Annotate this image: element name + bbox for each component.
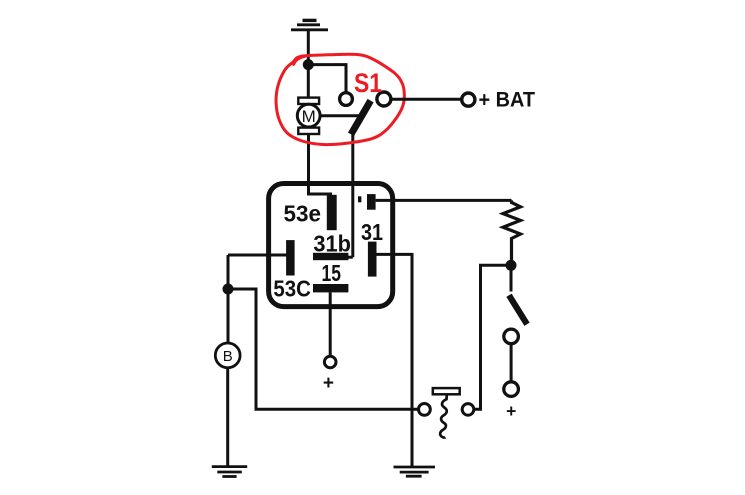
wire B to ground (226, 368, 229, 466)
svg-text:15: 15 (322, 260, 342, 286)
switch S1 left contact (340, 93, 353, 106)
svg-text:53e: 53e (284, 201, 322, 227)
svg-text:B: B (223, 348, 233, 365)
svg-text:31: 31 (361, 219, 383, 245)
switch S2 contact (504, 329, 519, 344)
pin 53e (327, 195, 337, 230)
wire S1 to BAT (391, 98, 462, 101)
node junction left (223, 284, 234, 295)
switch S1 blade (351, 101, 371, 135)
terminal + (right) (504, 382, 519, 397)
flasher contact bar (433, 388, 460, 394)
node junction right (506, 260, 517, 271)
wire 15 to + terminal (329, 292, 332, 356)
wire contact to + terminal (510, 344, 513, 382)
wire pin49 to resistor (376, 199, 512, 202)
left bus wire (227, 255, 230, 343)
wire motor to pin 53e (309, 134, 333, 194)
wire junction to motor (307, 65, 310, 98)
wire ground to junction (307, 30, 310, 66)
ground (right) (394, 467, 436, 476)
wire junction to flasher right (474, 265, 511, 409)
pin 49 top right (367, 194, 376, 210)
terminal + (15) (324, 356, 336, 368)
wire 31 to ground line (377, 254, 413, 466)
wire junction to flasher (228, 289, 419, 409)
switch S1 right contact (377, 92, 391, 106)
pin 31b (313, 253, 348, 260)
switch S2 blade (509, 295, 527, 324)
ground (left) (212, 467, 247, 477)
svg-text:+ BAT: + BAT (479, 87, 536, 111)
pin 53C (286, 240, 295, 275)
relay box U1 (269, 184, 393, 307)
node junction top (303, 59, 314, 70)
flasher right terminal (462, 404, 474, 416)
svg-text:M: M (302, 107, 316, 126)
motor M brush bottom (298, 128, 319, 134)
switch S2 stub (510, 265, 513, 291)
annotation red loop (276, 54, 404, 144)
pin tick top right (358, 196, 361, 202)
pin 31 (368, 242, 377, 277)
svg-text:31b: 31b (313, 230, 351, 256)
wire blade to pin 31b (351, 132, 354, 257)
flasher left terminal (419, 404, 431, 416)
terminal + BAT (462, 93, 475, 106)
wire M to blade (320, 114, 362, 117)
resistor R1 (503, 200, 521, 260)
wire junction to S1 left contact (308, 65, 346, 93)
ground (top) (291, 20, 328, 29)
pin 15 (313, 284, 348, 292)
svg-text:+: + (506, 401, 516, 421)
flasher heater wire (440, 395, 447, 438)
svg-text:53C: 53C (273, 276, 311, 302)
svg-text:+: + (323, 373, 334, 394)
motor M brush top (298, 98, 319, 104)
svg-text:S1: S1 (354, 68, 382, 98)
wire 53C to left bus (228, 254, 288, 257)
motor M body (297, 104, 320, 127)
battery B (215, 343, 240, 368)
